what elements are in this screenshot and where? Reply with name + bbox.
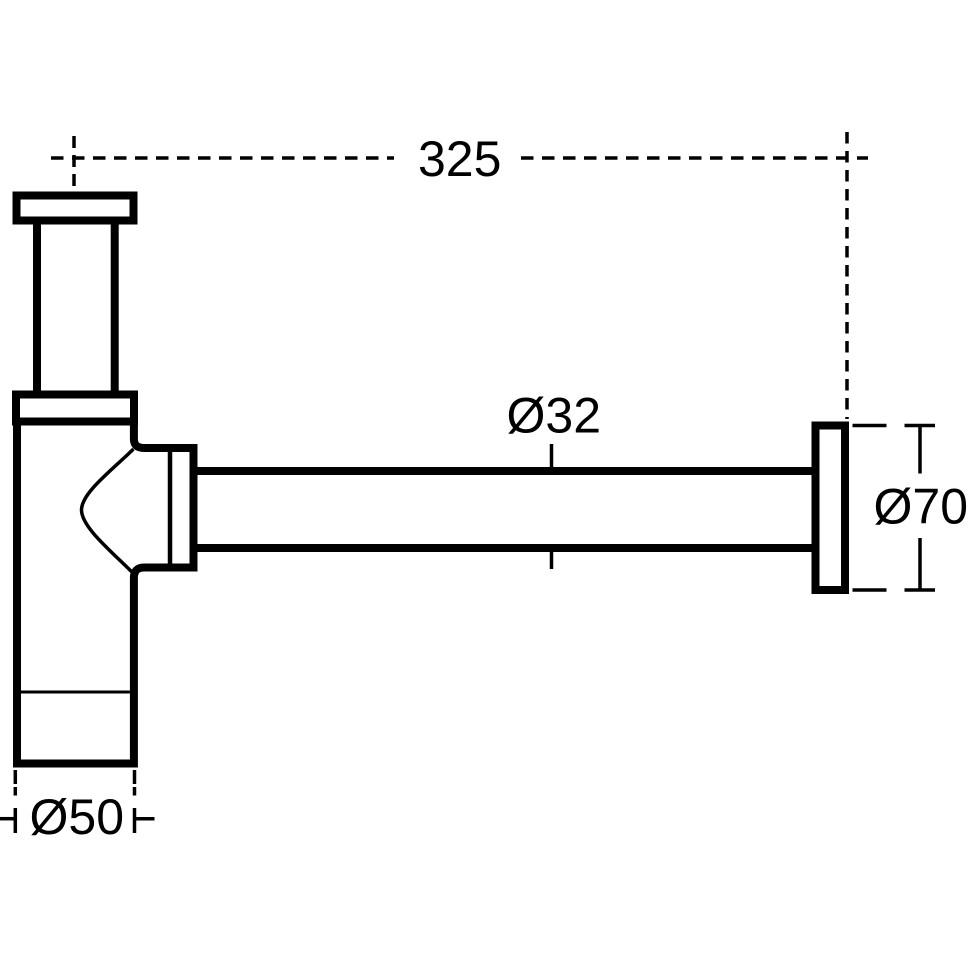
svg-text:325: 325 [418,131,501,187]
svg-text:Ø50: Ø50 [30,789,125,845]
svg-text:Ø32: Ø32 [507,388,602,444]
svg-text:Ø70: Ø70 [874,479,969,535]
